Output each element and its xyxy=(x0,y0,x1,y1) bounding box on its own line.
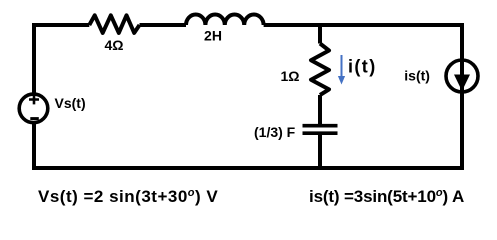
capacitor C1 plates xyxy=(303,126,338,134)
svg-text:i(t): i(t) xyxy=(348,57,377,77)
wire middle branch top stub xyxy=(318,23,322,44)
resistor R1 4Ω zigzag xyxy=(89,15,139,33)
inductor L1 2H xyxy=(186,15,264,26)
svg-text:Vs(t): Vs(t) xyxy=(55,95,86,111)
current arrow i(t) blue xyxy=(341,55,343,78)
arrow of current source xyxy=(454,75,470,92)
wire left vertical upper xyxy=(32,23,36,95)
minus sign of Vs xyxy=(30,117,39,120)
svg-text:(1/3) F: (1/3) F xyxy=(254,124,296,140)
wire top from left corner to resistor R1 xyxy=(34,23,89,27)
svg-text:is(t): is(t) xyxy=(404,67,430,83)
svg-text:1Ω: 1Ω xyxy=(280,68,299,84)
svg-text:4Ω: 4Ω xyxy=(104,37,123,53)
wire capacitor to bottom xyxy=(318,135,322,169)
wire bottom xyxy=(32,166,464,170)
plus sign of Vs xyxy=(29,95,39,105)
wire resistor to capacitor xyxy=(318,95,322,124)
resistor R2 1Ω vertical zigzag xyxy=(311,44,329,96)
svg-text:2H: 2H xyxy=(204,28,222,44)
wire right vertical xyxy=(460,23,464,170)
source Vs circle xyxy=(19,94,48,123)
wire left vertical lower xyxy=(32,123,36,171)
wire inductor to top-right corner xyxy=(264,23,462,27)
source Is circle xyxy=(446,60,478,92)
wire between resistor and inductor xyxy=(140,23,187,27)
